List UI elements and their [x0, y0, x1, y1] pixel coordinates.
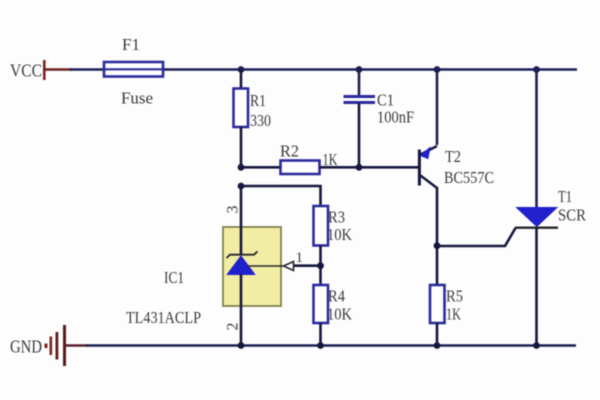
wire bottom rail	[86, 344, 576, 347]
junction dot C1/base wire	[356, 164, 363, 171]
wire R2 to T2 base	[320, 166, 420, 169]
wire SCR gate	[437, 228, 516, 246]
wire node to R3 top	[241, 186, 321, 207]
resistor R2	[281, 161, 320, 175]
junction dot TL431 anode/rail	[238, 342, 245, 349]
fuse F1	[104, 62, 163, 77]
wire C1 top lead	[358, 70, 361, 97]
junction dot SCR/rail	[533, 342, 540, 349]
junction dot C1/top-rail	[356, 66, 363, 73]
svg-text:1: 1	[296, 250, 304, 266]
svg-text:10K: 10K	[327, 225, 353, 244]
wire R1 bottom to node	[240, 127, 243, 168]
wire GND stub (maroon)	[65, 344, 88, 347]
svg-text:IC1: IC1	[164, 268, 184, 287]
svg-text:R2: R2	[280, 142, 299, 161]
wire pin1 to R3/R4 node	[294, 264, 321, 267]
resistor R3	[314, 206, 329, 246]
wire T2 collector vertical	[436, 187, 439, 246]
wire T2 emitter vertical	[436, 70, 439, 146]
wire anode to ground rail	[240, 274, 243, 346]
TL431 cathode bar with zener ticks	[227, 251, 258, 258]
junction dot base wire	[238, 164, 245, 171]
resistor R4	[314, 285, 329, 323]
wire VCC stub (maroon)	[44, 68, 72, 71]
op-amp IC1 body (TL431)	[223, 227, 281, 306]
svg-text:R5: R5	[446, 287, 463, 306]
wire top rail	[70, 68, 577, 71]
svg-text:VCC: VCC	[10, 61, 42, 81]
ground symbol	[45, 325, 67, 366]
svg-text:R3: R3	[328, 208, 345, 227]
svg-text:2: 2	[225, 323, 242, 331]
thyristor T1 (SCR) triangle	[517, 208, 558, 227]
svg-text:Fuse: Fuse	[121, 89, 153, 108]
svg-text:F1: F1	[122, 35, 140, 54]
wire SCR anode vertical	[535, 70, 538, 210]
junction dot R1/top-rail	[238, 66, 245, 73]
junction dot ref/R3R4	[317, 262, 324, 269]
wire R1 top	[240, 70, 243, 90]
svg-text:1K: 1K	[446, 305, 462, 324]
svg-text:330: 330	[250, 111, 271, 130]
wire R5 to ground rail	[436, 323, 439, 346]
junction dot SCR/top-rail	[533, 66, 540, 73]
wire SCR cathode vertical	[535, 228, 538, 346]
TL431 triangle	[227, 256, 255, 275]
wire reference lead inside box	[247, 265, 283, 267]
svg-text:GND: GND	[10, 337, 42, 357]
svg-text:SCR: SCR	[558, 206, 587, 225]
transistor T2 (PNP BC557C)	[419, 146, 437, 188]
wire R3 to R4	[319, 246, 322, 286]
pin 1 open arrow	[284, 262, 294, 271]
junction dot R5/rail	[434, 342, 441, 349]
svg-text:T2: T2	[445, 147, 461, 166]
node VCC port bar	[43, 60, 46, 80]
thyristor T1 cathode bar	[515, 226, 558, 228]
wire R4 to ground rail	[319, 323, 322, 346]
svg-text:BC557C: BC557C	[444, 168, 494, 187]
resistor R5	[430, 285, 445, 323]
resistor R1	[234, 89, 249, 128]
svg-text:R1: R1	[250, 91, 266, 110]
junction dot R4/rail	[317, 342, 324, 349]
wire pin3 lead into IC1	[240, 186, 243, 255]
junction dot T2 emitter/top-rail	[434, 66, 441, 73]
junction dot node to R3	[238, 183, 245, 190]
wire C1 bottom lead	[358, 103, 361, 167]
svg-text:TL431ACLP: TL431ACLP	[126, 308, 201, 327]
junction dot gate/R5	[434, 242, 441, 249]
capacitor C1	[344, 97, 376, 103]
svg-text:R4: R4	[328, 287, 345, 306]
svg-text:3: 3	[225, 206, 242, 214]
svg-text:100nF: 100nF	[377, 108, 414, 127]
svg-text:T1: T1	[558, 187, 572, 206]
wire junction to R5	[436, 246, 439, 286]
wire node to R2	[241, 166, 281, 169]
svg-text:10K: 10K	[327, 305, 353, 324]
